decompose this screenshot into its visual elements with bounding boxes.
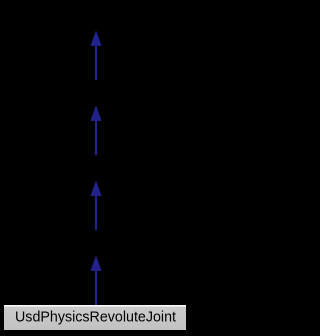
class node box UsdPhysicsRevoluteJoint bbox=[4, 305, 186, 330]
inheritance arrow 3 bbox=[90, 180, 101, 230]
inheritance arrow 2 bbox=[90, 105, 101, 155]
inheritance diagram canvas bbox=[0, 0, 192, 336]
inheritance arrow 4 (bottom) bbox=[90, 255, 101, 305]
inheritance arrow 1 (top) bbox=[90, 30, 101, 80]
svg-text:UsdPhysicsRevoluteJoint: UsdPhysicsRevoluteJoint bbox=[15, 309, 177, 326]
